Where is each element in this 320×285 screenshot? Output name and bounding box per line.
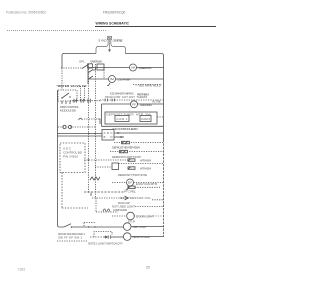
feed arrowheads — [80, 100, 81, 102]
door switch bypass dashed — [84, 222, 95, 224]
dispenser switch dashed — [61, 67, 82, 69]
lower light link — [131, 236, 164, 238]
water valve coil — [97, 64, 104, 70]
service cord plug — [107, 36, 112, 39]
ground — [108, 40, 111, 52]
compressor row dashed — [92, 197, 124, 199]
wire neutral rail right — [163, 68, 165, 140]
aux contact arc — [79, 118, 83, 120]
svg-text:PER: PER — [128, 220, 136, 224]
wire left rail dashed — [61, 68, 63, 90]
svg-text:SP’L: SP’L — [79, 60, 85, 64]
run capacitor mark — [125, 196, 129, 200]
lower light — [123, 233, 131, 241]
dispenser switch box dashed — [58, 90, 77, 101]
switch wire right — [93, 68, 96, 71]
defrost thermostat body — [112, 163, 119, 170]
svg-text:COLD CONTROL THERMO: COLD CONTROL THERMO — [112, 127, 139, 131]
evap fan tail — [126, 186, 129, 189]
svg-text:MODULE BD: MODULE BD — [60, 109, 77, 113]
svg-text:HTR ASM: HTR ASM — [140, 167, 152, 171]
dispenser switch blade — [62, 93, 69, 98]
evap fan row dashed — [112, 182, 127, 184]
wire top bus left — [62, 54, 96, 69]
freezer fan row wire — [102, 103, 131, 105]
timer sub box b — [140, 116, 151, 122]
tiny labels — [57, 39, 162, 246]
wire L1 prong — [96, 40, 108, 54]
defrost thermostat row dashed — [95, 166, 112, 168]
icemaker thermostat dashed row — [100, 99, 164, 101]
svg-text:EVAP FAN MTR: EVAP FAN MTR — [136, 182, 158, 186]
svg-text:DEFROST TSTAT NOTE: DEFROST TSTAT NOTE — [118, 173, 147, 177]
header rule dotted — [7, 30, 106, 32]
wire adc out lower — [114, 136, 124, 138]
defrost heater element — [122, 141, 130, 144]
svg-text:Publication No. 5995426502: Publication No. 5995426502 — [6, 11, 46, 15]
bypass loop dashed — [94, 232, 112, 238]
defrost sensor zigzag — [90, 177, 100, 180]
svg-text:DEFROST TIMER MTR SW: DEFROST TIMER MTR SW — [107, 112, 151, 116]
svg-text:WIRING SCHEMATIC: WIRING SCHEMATIC — [96, 22, 130, 26]
svg-text:DEFROST LIMIT TSTAT: DEFROST LIMIT TSTAT — [112, 155, 141, 159]
dispenser output contacts dashed — [70, 100, 100, 102]
switch blade a — [82, 65, 88, 69]
svg-text:AUGER MOTOR: AUGER MOTOR — [139, 66, 153, 70]
svg-text:FF: FF — [132, 103, 136, 107]
dispenser feed dashed b — [84, 86, 86, 101]
dispenser feed dashed a — [80, 86, 82, 101]
refr light — [123, 223, 131, 231]
refr light link — [131, 226, 164, 228]
lamp holders — [103, 209, 110, 212]
dispenser switch dots — [61, 96, 70, 98]
relay box — [88, 64, 93, 68]
compressor row link dashed — [152, 199, 164, 201]
svg-text:CONT GRLE: CONT GRLE — [113, 39, 123, 43]
svg-text:SAVER SW: SAVER SW — [90, 60, 102, 64]
dispenser lamp row dashed — [58, 126, 95, 128]
timer sub box a — [115, 116, 129, 122]
adc board bottom dashed — [62, 207, 88, 209]
left wire solid — [57, 90, 64, 227]
adc board lower edge dashed — [61, 173, 63, 209]
svg-text:DEFROST LIGHT: DEFROST LIGHT — [133, 235, 151, 239]
timer box — [105, 112, 157, 124]
not used row dashed — [135, 206, 164, 208]
svg-text:P/N 24100: P/N 24100 — [63, 155, 78, 159]
svg-text:*WATER VALVE CO: *WATER VALVE CO — [57, 84, 88, 88]
wire double row lower — [57, 135, 102, 137]
defrost row2 dashed — [110, 151, 164, 153]
ice maker motor — [109, 76, 116, 83]
defrost heater row dashed — [114, 142, 164, 144]
evap fan motor — [127, 179, 134, 186]
ice maker row wire — [89, 78, 109, 80]
adc board box dashed — [60, 143, 85, 173]
svg-text:REF LIGHT: REF LIGHT — [133, 225, 147, 229]
svg-text:LAMP HLDR: LAMP HLDR — [113, 208, 128, 212]
svg-text:5 YKD: 5 YKD — [99, 39, 108, 43]
ice maker fill tube — [107, 83, 110, 86]
freezer fan motor — [131, 101, 138, 108]
evap fan link dashed — [134, 182, 164, 184]
wire N prong — [111, 40, 126, 54]
svg-text:DEFROST HEATER 450W: DEFROST HEATER 450W — [112, 146, 140, 150]
svg-text:FRS26KF6CQ0: FRS26KF6CQ0 — [103, 11, 126, 15]
switch blade b — [89, 70, 94, 73]
svg-text:NOTE 1 LIGHT SWITCH QTY: NOTE 1 LIGHT SWITCH QTY — [88, 242, 123, 246]
svg-text:AL TML: AL TML — [152, 100, 161, 104]
auger motor row wire — [89, 67, 130, 69]
dispenser lamp b — [68, 125, 71, 128]
dispenser box ticks — [61, 101, 63, 104]
wire top bus right — [125, 54, 163, 69]
door switch run — [72, 226, 124, 228]
wire box drop — [101, 104, 103, 126]
svg-text:1022: 1022 — [18, 268, 25, 272]
valve drop dashed — [103, 68, 105, 79]
svg-text:— SEE WIRE MOLD: — SEE WIRE MOLD — [135, 84, 162, 88]
lower light feed dashed — [90, 236, 104, 238]
lamp row dashed — [96, 211, 118, 213]
freezer light link dotted — [134, 215, 163, 217]
door switch blade — [64, 224, 71, 227]
defrost thermostat link dashed — [119, 163, 164, 165]
lamp feed dashed vertical — [95, 198, 97, 212]
connector arrow — [104, 236, 107, 238]
ptc element — [128, 186, 135, 189]
connector out wire — [111, 236, 124, 238]
thermostat row wire — [102, 125, 164, 127]
defrost heater element 2 — [120, 150, 128, 153]
header rule solid — [95, 26, 216, 28]
mid dashed row 192 — [84, 191, 124, 193]
junction dots — [71, 133, 96, 228]
mid dashed row 160 — [84, 159, 128, 161]
column x88 dashed — [88, 64, 90, 192]
svg-text:ICE MAKER: ICE MAKER — [118, 78, 132, 82]
column x95 dashed — [94, 64, 96, 198]
switch blade c — [89, 76, 94, 79]
ptc row dashed — [135, 186, 160, 188]
svg-text:CAM 2: CAM 2 — [141, 117, 150, 121]
wire mold dashed row — [133, 84, 162, 86]
svg-text:HTR ASM: HTR ASM — [140, 159, 152, 163]
aux corner — [98, 119, 100, 124]
svg-text:EF: EF — [128, 181, 132, 185]
sensor tick — [90, 193, 92, 196]
wire adc out upper — [114, 132, 164, 134]
svg-text:FRZ FAN MTR: FRZ FAN MTR — [140, 103, 153, 107]
connector bars — [107, 235, 109, 238]
auger motor — [130, 64, 137, 71]
freezer light — [127, 212, 135, 220]
heat element small b — [128, 167, 135, 170]
svg-text:COMPRESSOR OVL: COMPRESSOR OVL — [120, 196, 151, 200]
aux dashed link — [84, 118, 98, 120]
svg-text:DOOR LIGHT: DOOR LIGHT — [136, 215, 154, 219]
wire double row upper — [57, 133, 102, 135]
svg-text:PTC REL: PTC REL — [124, 189, 136, 193]
svg-text:CAM 1: CAM 1 — [117, 117, 128, 121]
freezer light row dashed — [112, 215, 127, 217]
door switch note underline dashed — [57, 240, 88, 242]
dispenser lamp a — [63, 125, 66, 128]
svg-text:SW FF OF SW 1: SW FF OF SW 1 — [58, 236, 82, 240]
heat element small a — [128, 159, 135, 162]
timer box dashed link — [157, 116, 164, 118]
svg-text:MOLD HTR CUT OUT THERM: MOLD HTR CUT OUT THERM — [105, 95, 148, 99]
svg-text:20: 20 — [146, 266, 150, 270]
switch stem — [87, 64, 89, 84]
adc control box — [102, 130, 114, 141]
